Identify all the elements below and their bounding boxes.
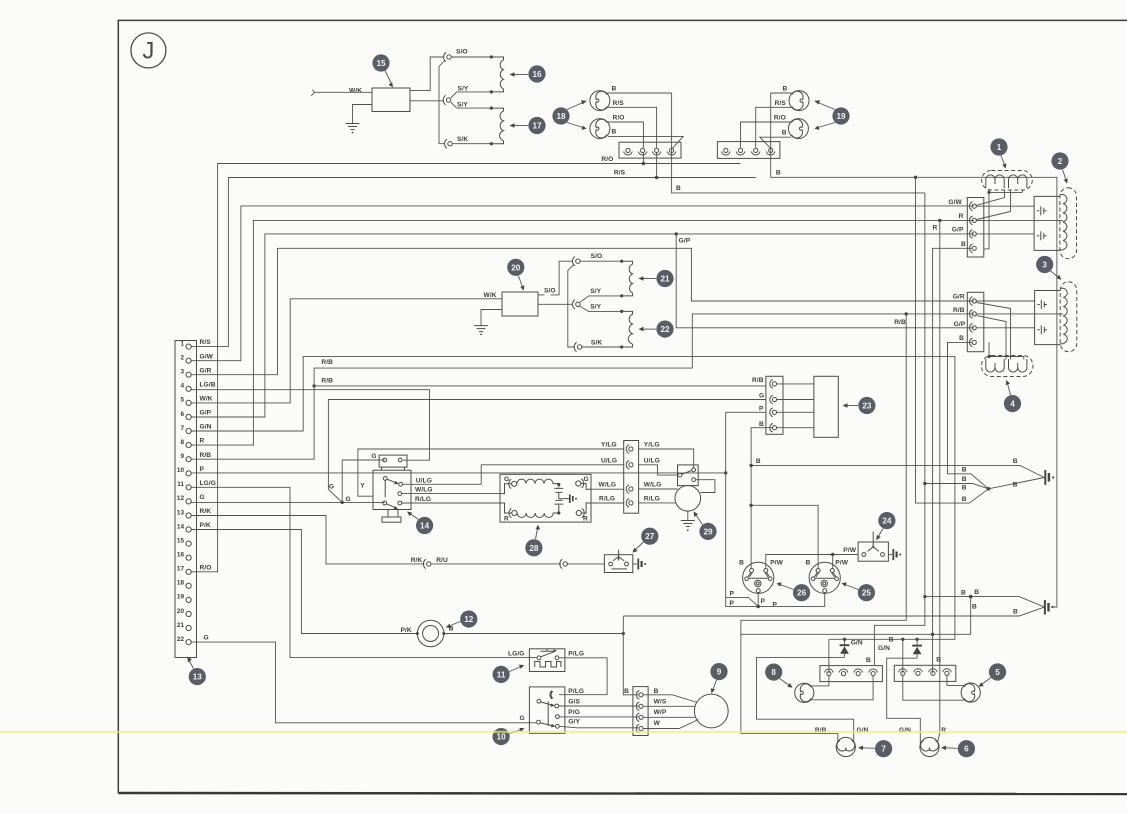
svg-text:9: 9: [717, 668, 722, 677]
badge 20: [507, 259, 524, 291]
relay box 20: [484, 292, 539, 316]
svg-text:2: 2: [1058, 157, 1063, 166]
svg-text:B: B: [783, 86, 788, 93]
horn item 25: [806, 559, 849, 593]
badge 22: [639, 321, 674, 338]
wire Y/LG to item29 switch: [639, 449, 694, 468]
headlamp bulb (item18 lower): [590, 119, 610, 139]
svg-text:R/B: R/B: [752, 377, 764, 384]
ground of item29: [681, 511, 695, 531]
wire R/LG suppressor to harness: [591, 502, 624, 504]
svg-text:11: 11: [177, 481, 184, 488]
svg-text:B: B: [1013, 609, 1018, 616]
badge 27: [632, 528, 658, 553]
svg-text:W/K: W/K: [484, 292, 497, 299]
svg-text:G/P: G/P: [200, 410, 212, 417]
svg-text:W/K: W/K: [349, 88, 362, 95]
switch item 27: [604, 550, 632, 573]
svg-text:LG/G: LG/G: [200, 480, 217, 487]
wire branch to S/K connector: [568, 265, 574, 347]
wire pin8 R bus to item1 connector: [191, 220, 974, 445]
wire P/W drop to horn 25: [832, 555, 834, 569]
wire item4 left coil to B wire: [988, 342, 990, 356]
svg-text:P: P: [730, 590, 735, 597]
earth point after item24: [888, 549, 901, 560]
svg-text:B: B: [1013, 458, 1018, 465]
wire B19 down to upper earth fan: [916, 177, 989, 503]
connector block group19: [717, 142, 780, 159]
svg-text:3: 3: [1042, 261, 1047, 270]
svg-text:8: 8: [180, 439, 184, 446]
wire item3 G/R row to capacitor box: [976, 300, 1034, 302]
node coil22 bottom: [620, 345, 623, 348]
capacitor box item2: [1034, 196, 1060, 250]
wire G/N rail drop to box8 pin1: [828, 639, 830, 673]
svg-text:LG/B: LG/B: [200, 381, 216, 388]
node G branch: [341, 501, 344, 504]
svg-text:P: P: [761, 598, 766, 605]
fuel pump item 23 body: [777, 376, 839, 437]
svg-text:15: 15: [376, 59, 386, 68]
wire item1 R row to flasher coils mid: [976, 219, 1063, 221]
svg-text:U/LG: U/LG: [601, 457, 617, 464]
badge 9: [710, 663, 727, 694]
badge 1: [990, 138, 1007, 168]
lower earth point: [1045, 600, 1054, 615]
svg-text:13: 13: [193, 673, 203, 682]
svg-text:G/W: G/W: [200, 353, 214, 360]
wire item1 G/P row to capacitor box: [976, 233, 1034, 235]
badge 12: [446, 611, 478, 629]
wire box20 top output to S/O connector: [538, 294, 545, 296]
headlamp bulb (item18 upper): [590, 91, 610, 111]
svg-text:18: 18: [177, 580, 185, 587]
node coil21 bottom: [620, 294, 623, 297]
wire item3 B wire left and down: [947, 342, 949, 356]
svg-text:16: 16: [532, 70, 542, 79]
badge 21: [639, 270, 674, 287]
svg-text:R/LG: R/LG: [599, 496, 615, 503]
wire G drop from item14 park switch: [342, 460, 385, 502]
svg-text:B: B: [889, 637, 894, 644]
svg-text:W/LG: W/LG: [644, 482, 662, 489]
svg-text:21: 21: [660, 275, 670, 284]
badge 24: [876, 512, 895, 540]
svg-text:29: 29: [703, 527, 713, 536]
wire R/B branch to item23 pin1: [314, 385, 766, 387]
svg-text:22: 22: [177, 636, 185, 643]
svg-text:B: B: [961, 589, 966, 596]
svg-text:B: B: [866, 657, 871, 664]
washer switch item 10: [519, 687, 584, 734]
svg-text:G/P: G/P: [952, 227, 964, 234]
svg-text:12: 12: [177, 495, 185, 502]
svg-text:17: 17: [177, 566, 185, 573]
svg-text:G/R: G/R: [200, 367, 212, 374]
svg-text:20: 20: [511, 263, 521, 272]
bulb item 8: [795, 683, 814, 702]
horn coil unit item 1: [982, 171, 1033, 191]
badge 15: [372, 54, 393, 87]
horn push item 24: [858, 532, 888, 562]
wire Y from item14 to harness: [358, 449, 624, 496]
wire pin2 G/W bus to item1 connector: [191, 206, 974, 361]
node B branch at lower earth line: [969, 595, 973, 599]
wire diode8 G/N to bulb 7: [757, 657, 854, 741]
svg-text:R/O: R/O: [601, 156, 613, 163]
node R/S junction at group18 pin3: [655, 176, 658, 179]
headlamp bulb (item19 upper): [789, 91, 809, 111]
svg-text:R/O: R/O: [774, 115, 786, 122]
svg-text:J: J: [142, 38, 154, 65]
svg-text:G/S: G/S: [568, 698, 580, 705]
inline connector before item27: [560, 559, 568, 568]
wire W/K feed into box 15: [311, 90, 372, 96]
svg-text:G/P: G/P: [954, 321, 966, 328]
wire item3 B down to fan: [948, 342, 989, 488]
svg-text:P/W: P/W: [770, 559, 783, 566]
svg-text:B: B: [612, 129, 617, 136]
svg-text:G: G: [346, 496, 351, 503]
svg-text:B: B: [974, 589, 979, 596]
sheet letter J: [131, 33, 166, 68]
svg-text:7: 7: [180, 425, 184, 432]
badge 3: [1036, 256, 1061, 280]
svg-text:B: B: [776, 169, 781, 176]
wire item1 coil to B pin: [984, 192, 989, 249]
svg-text:14: 14: [177, 523, 185, 530]
svg-text:5: 5: [180, 397, 184, 404]
badge 10: [493, 728, 525, 746]
svg-text:2: 2: [180, 355, 184, 362]
svg-text:W/P: W/P: [654, 709, 667, 716]
svg-text:3: 3: [180, 369, 184, 376]
svg-text:S/O: S/O: [456, 49, 468, 56]
wire B bus of group18 down: [672, 93, 925, 193]
wire item3 R/B row to flasher coils mid: [976, 313, 1063, 315]
harness connector item29: [599, 441, 662, 514]
wire U/LG to item29 switch: [639, 465, 678, 475]
wire P upper spur to horn junction: [726, 597, 759, 606]
svg-text:G: G: [329, 483, 334, 490]
wire G/P branch down to item3 connector: [676, 234, 974, 328]
wire P down to horns: [726, 473, 759, 607]
badge 7: [858, 740, 892, 757]
svg-text:R/K: R/K: [200, 508, 212, 515]
wire item12 B to motor9 B riser: [444, 633, 624, 635]
wire item3 G/P row to capacitor box: [976, 327, 1034, 329]
frame bottom edge: [118, 793, 1127, 794]
svg-text:R/S: R/S: [613, 100, 625, 107]
connector S/Y twin: [443, 86, 469, 109]
svg-text:W: W: [654, 720, 661, 727]
svg-text:B: B: [759, 421, 764, 428]
wire pin6 G/P bus to item1 connector: [191, 234, 974, 417]
svg-text:P: P: [200, 466, 205, 473]
svg-text:4: 4: [1010, 400, 1015, 409]
svg-text:21: 21: [177, 622, 185, 629]
wire U/LG item14 to harness: [403, 465, 624, 485]
wire R/U to second connector: [431, 563, 561, 565]
coil 22: [622, 311, 633, 347]
badge 25: [842, 582, 876, 601]
svg-text:R/S: R/S: [775, 100, 787, 107]
svg-text:P: P: [730, 600, 735, 607]
wire item23 B down to horn 26: [751, 428, 772, 569]
svg-text:1: 1: [997, 143, 1002, 152]
svg-text:24: 24: [882, 517, 892, 526]
wire S/K to coil22 bottom: [582, 346, 622, 348]
node coil21 top: [620, 260, 623, 263]
upper earth fan node: [987, 487, 991, 491]
svg-text:R/O: R/O: [200, 564, 212, 571]
inline connector R/K-R/U: [411, 557, 448, 569]
coil 17: [491, 108, 503, 144]
wire item1 coil jumper: [989, 190, 1023, 192]
wire bulb18b R/O: [608, 122, 644, 148]
svg-text:R/S: R/S: [614, 169, 626, 176]
node coil22 top: [620, 310, 623, 313]
wire item4 diagonals to item3 pins: [977, 303, 1011, 360]
svg-text:U/LG: U/LG: [416, 478, 432, 485]
svg-text:S/O: S/O: [544, 287, 556, 294]
svg-text:10: 10: [497, 733, 507, 742]
svg-text:P: P: [773, 602, 778, 609]
svg-text:R/S: R/S: [200, 339, 212, 346]
node P horn junction: [756, 605, 760, 609]
connector S/Y 20: [572, 288, 601, 311]
badge 29: [694, 511, 717, 540]
svg-text:6: 6: [964, 745, 969, 754]
svg-text:G/N: G/N: [851, 639, 863, 646]
wire B upper line into lower earth: [925, 597, 1044, 607]
wire S/O to coil16 top: [451, 56, 491, 58]
badge 17: [510, 117, 546, 134]
svg-text:G/R: G/R: [953, 294, 965, 301]
node G/N rail at box5 pin1: [901, 638, 904, 641]
svg-text:R/B: R/B: [953, 307, 965, 314]
wire B19 bus to right and fan: [771, 177, 1057, 607]
svg-text:G/P: G/P: [679, 238, 691, 245]
wire P/LG item11 to item10: [559, 658, 607, 695]
svg-text:8: 8: [771, 668, 776, 677]
svg-text:R/LG: R/LG: [644, 496, 660, 503]
svg-text:B: B: [959, 335, 964, 342]
svg-text:Y: Y: [360, 483, 365, 490]
horn item 12: [401, 620, 454, 647]
horn item 26: [739, 559, 784, 593]
node coil16 top: [490, 55, 493, 58]
svg-text:B: B: [806, 559, 811, 566]
wire B to horn 25: [751, 505, 818, 568]
svg-text:S/Y: S/Y: [590, 288, 601, 295]
wire pin7 G/N bus to diode rail: [191, 357, 955, 640]
wire box15 top output to S/O connector: [410, 57, 444, 91]
svg-text:P/W: P/W: [835, 559, 848, 566]
wire bulb19b R/O: [741, 122, 792, 148]
node B branch to horn 25: [749, 504, 752, 507]
wire branch to S/K connector: [439, 61, 445, 144]
svg-text:P: P: [759, 406, 764, 413]
svg-text:B: B: [676, 185, 681, 192]
wire item1 B down to item5 connector pin3: [933, 248, 972, 673]
svg-text:U/LG: U/LG: [644, 457, 660, 464]
svg-text:B: B: [962, 467, 967, 474]
wire group18 pin3 to R/S bus: [656, 153, 658, 178]
node B branch to earth rail: [749, 464, 752, 467]
wire G/S item10 to connector9: [559, 705, 639, 707]
svg-text:11: 11: [497, 670, 506, 679]
wiper motor limit switch item29: [678, 465, 699, 486]
washer motor connector item9: [624, 687, 667, 736]
wire W/LG to item29 motor: [639, 488, 678, 490]
wire S/Y upper to coil21 bottom: [580, 296, 622, 302]
wire pin1 R/S to R/S bus: [191, 178, 756, 347]
relay box 15: [349, 88, 410, 112]
badge 26: [777, 582, 811, 601]
diode 8: [840, 638, 863, 658]
suppressor box item 28: [500, 474, 591, 522]
svg-text:B: B: [962, 485, 967, 492]
wire pin3 G/R bus to item3 connector: [191, 248, 974, 374]
wire B net to upper earth: [751, 465, 1044, 477]
svg-text:23: 23: [862, 402, 872, 411]
wire connector to item27: [567, 563, 604, 565]
svg-text:B: B: [962, 476, 967, 483]
svg-text:B: B: [1013, 482, 1018, 489]
node R/O junction at group18 pin2: [642, 162, 645, 165]
badge 19: [814, 100, 849, 130]
svg-text:R: R: [504, 516, 509, 523]
connector S/O (bullet): [444, 49, 468, 62]
svg-text:G/N: G/N: [878, 645, 890, 652]
connector block item5 group: [894, 656, 956, 681]
svg-text:G/Y: G/Y: [568, 719, 580, 726]
wire group18 pin2 to R/O bus: [642, 153, 644, 164]
svg-text:B: B: [739, 559, 744, 566]
svg-text:B: B: [962, 496, 967, 503]
svg-text:B: B: [756, 458, 761, 465]
wire S/Y upper to coil16 bottom: [451, 92, 492, 98]
svg-text:10: 10: [177, 467, 185, 474]
svg-text:W/LG: W/LG: [415, 487, 433, 494]
node coil17 bottom: [490, 142, 493, 145]
svg-text:5: 5: [995, 668, 1000, 677]
svg-text:B: B: [972, 604, 977, 611]
wire pin10 P bus: [191, 472, 726, 474]
bulb item 5: [961, 683, 980, 702]
svg-text:R/B: R/B: [321, 359, 333, 366]
bulb item 6: [920, 737, 939, 756]
node junction with item5 pin3 drop: [931, 633, 934, 636]
svg-text:B: B: [654, 688, 659, 695]
svg-text:R: R: [959, 213, 964, 220]
node P/W branch: [831, 553, 834, 556]
node G/P branch: [675, 232, 678, 235]
badge 2: [1051, 152, 1068, 183]
svg-text:S/Y: S/Y: [457, 101, 468, 108]
svg-text:22: 22: [660, 325, 670, 334]
wire W/LG suppressor to harness: [591, 488, 624, 490]
wire B bus of group19 down: [770, 93, 772, 177]
svg-text:R/B: R/B: [200, 452, 212, 459]
wire R branch down to bulb 6: [938, 220, 940, 742]
wire pin4 LG/B to item14 park-switch: [191, 389, 429, 460]
wire pin17 R/O to R/O bus: [191, 164, 740, 572]
wire pin13 R/K to inline connector: [191, 516, 424, 564]
svg-text:S/K: S/K: [591, 340, 602, 347]
wiper switch item 14: [329, 453, 433, 522]
wire bulb19b B with splice to pin4: [760, 137, 791, 148]
svg-text:27: 27: [645, 532, 655, 541]
svg-text:P/W: P/W: [843, 547, 856, 554]
svg-text:G: G: [519, 715, 524, 722]
wire S/Y lower to coil17 top: [451, 102, 492, 108]
svg-text:P/G: P/G: [568, 709, 580, 716]
node R branch: [938, 219, 941, 222]
horn coil unit item 4: [982, 356, 1033, 377]
yellow highlighter line: [0, 731, 1127, 734]
wiper motor item 29: [675, 480, 715, 511]
svg-text:G: G: [204, 635, 209, 642]
wire fan node to upper earth: [989, 478, 1045, 489]
wire item1 coil diagonals to pins: [977, 190, 1011, 220]
wire bulb19a B: [771, 92, 792, 94]
washer motor item 9: [643, 694, 728, 728]
svg-text:P/K: P/K: [200, 522, 211, 529]
svg-text:G: G: [200, 494, 205, 501]
wire P/W bus: [766, 555, 858, 569]
wire G branch riser to item23 pin2: [328, 400, 766, 503]
wire B branch down to item5 rail: [741, 597, 971, 635]
wire box5 pin1 to bulb5 bottom: [903, 675, 964, 700]
svg-text:B: B: [782, 129, 787, 136]
wire box8 pin1 to bulb8 top: [811, 676, 829, 686]
svg-text:P/LG: P/LG: [568, 651, 584, 658]
connector block group18: [619, 142, 681, 158]
badge 6: [941, 740, 975, 757]
svg-text:15: 15: [177, 537, 185, 544]
wire box5 pin4 to bulb5 top: [947, 675, 964, 685]
svg-text:B: B: [624, 688, 629, 695]
wire G/Y item10 to connector9: [559, 726, 639, 728]
node coil16 bottom: [490, 90, 493, 93]
wire P riser to item23 pin3: [726, 412, 766, 473]
wire pin14 P/K to item 12: [191, 530, 417, 634]
svg-text:S/O: S/O: [591, 253, 603, 260]
wire pin11 LG/G to item 11: [191, 487, 536, 657]
badge 16: [510, 65, 546, 82]
wire R/LG to item29 motor: [639, 502, 676, 504]
connector block item3: [953, 292, 984, 351]
svg-text:B: B: [961, 241, 966, 248]
svg-text:6: 6: [180, 411, 184, 418]
upper earth point: [1045, 470, 1054, 485]
svg-text:R/LG: R/LG: [415, 496, 431, 503]
badge 28: [525, 525, 542, 557]
badge 5: [979, 663, 1007, 686]
connector S/K (bullet): [445, 136, 469, 148]
wire W/LG item14 to suppressor: [402, 493, 500, 495]
svg-text:S/Y: S/Y: [458, 86, 469, 93]
svg-text:S/Y: S/Y: [590, 303, 601, 310]
node B19 branch: [914, 176, 917, 179]
coil 16: [491, 57, 503, 92]
svg-text:R: R: [583, 516, 588, 523]
svg-text:LG/G: LG/G: [508, 651, 525, 658]
wire box8 pin4 to bulb8 bottom: [811, 676, 873, 700]
wire B riser for motor 9: [623, 616, 639, 695]
